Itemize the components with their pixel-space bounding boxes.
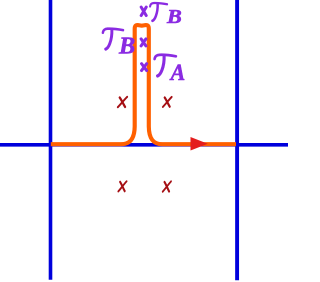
svg-text:B: B <box>166 7 182 28</box>
svg-text:A: A <box>169 60 186 85</box>
svg-text:B: B <box>118 34 135 60</box>
